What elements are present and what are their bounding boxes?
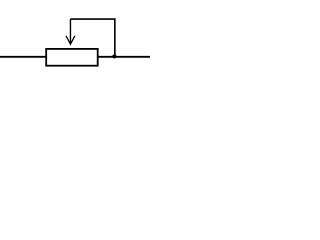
junction node xyxy=(112,54,116,58)
wire left terminal xyxy=(0,56,46,58)
resistor R1 body xyxy=(46,49,97,66)
wire right terminal xyxy=(98,56,150,58)
wire wiper loop xyxy=(70,19,114,57)
wiper arrow shaft xyxy=(69,19,71,43)
wiper arrowhead xyxy=(66,36,75,44)
potentiometer (rheostat) schematic xyxy=(0,0,150,100)
